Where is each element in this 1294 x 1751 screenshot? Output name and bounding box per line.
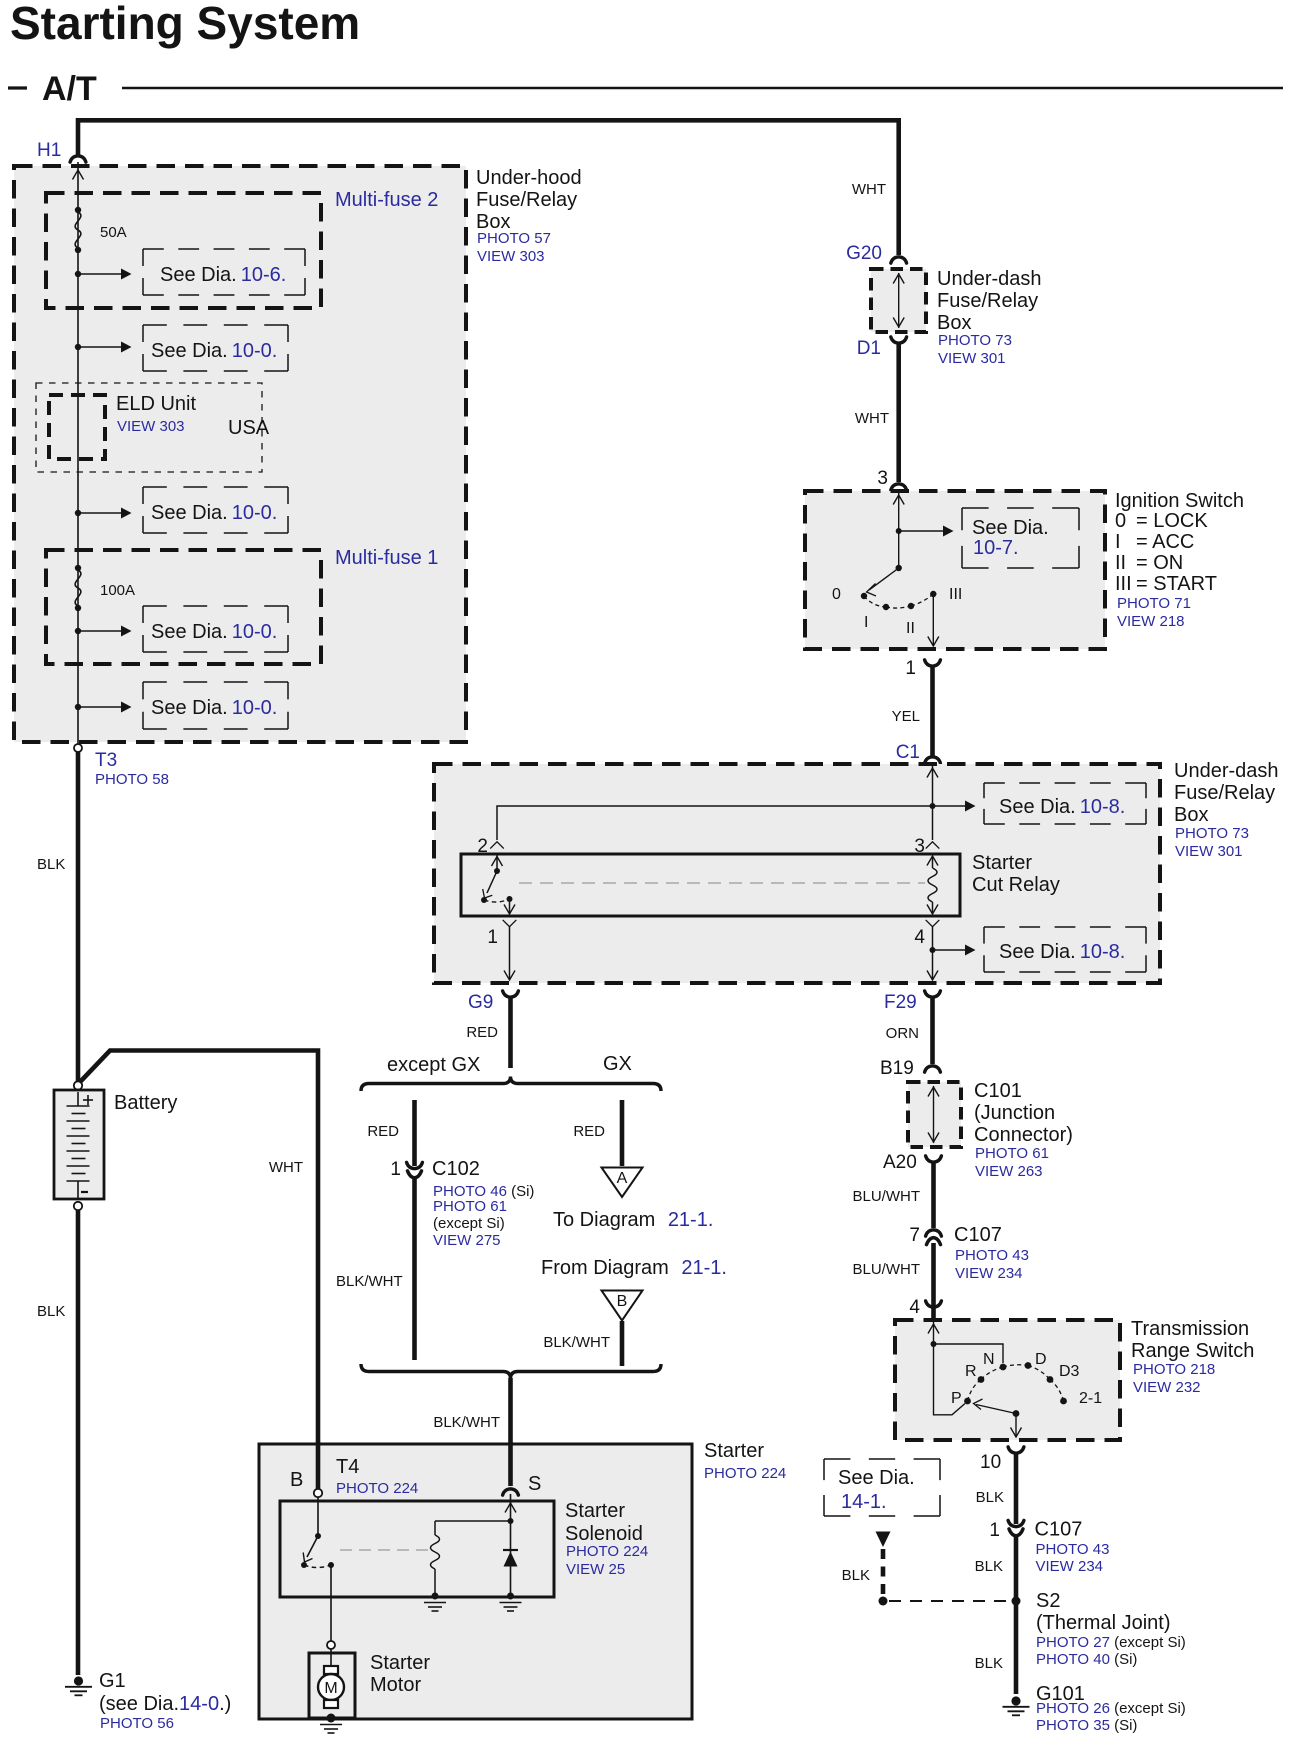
label Under-dash Fuse/Relay Box (top): [937, 268, 1042, 367]
wire: across to pin 2: [497, 806, 933, 840]
svg-text:Multi-fuse 2: Multi-fuse 2: [335, 189, 438, 211]
svg-text:0: 0: [1115, 510, 1126, 532]
diode D1 (solenoid): [503, 1521, 518, 1596]
starter solenoid box: [280, 1501, 554, 1597]
label T4: [336, 1456, 418, 1497]
node: tap to dia 10-0 (d): [75, 704, 81, 710]
svg-text:VIEW 301: VIEW 301: [938, 350, 1006, 367]
wire arrow to See Dia.10-8 (top): [933, 805, 966, 807]
svg-text:See Dia.: See Dia.: [972, 517, 1049, 539]
svg-text:M: M: [324, 1680, 337, 1697]
svg-text:C107: C107: [1035, 1519, 1083, 1541]
wire: S pin into solenoid: [510, 1494, 512, 1521]
svg-text:Starting System: Starting System: [10, 0, 360, 49]
connector C107 pin 7 (in-line): [926, 1230, 942, 1236]
see dia 10-8 box (top): [984, 783, 1146, 824]
svg-text:Solenoid: Solenoid: [565, 1523, 643, 1545]
label Under-dash Fuse/Relay Box (right): [1174, 760, 1279, 860]
svg-text:Under-dash: Under-dash: [1174, 760, 1279, 782]
connector pin 2: [490, 842, 504, 849]
svg-text:VIEW 25: VIEW 25: [566, 1561, 625, 1578]
wire: WHT into box to B stud: [316, 1442, 321, 1489]
svg-text:Box: Box: [1174, 804, 1208, 826]
svg-text:Starter: Starter: [704, 1440, 764, 1462]
svg-text:YEL: YEL: [892, 708, 920, 725]
multi-fuse 2 box: [46, 193, 321, 308]
label Starter Solenoid: [565, 1500, 648, 1578]
svg-text:= ACC: = ACC: [1136, 531, 1194, 553]
svg-text:Fuse/Relay: Fuse/Relay: [476, 189, 577, 211]
label Transmission Range Switch: [1131, 1318, 1254, 1396]
svg-text:USA: USA: [228, 417, 270, 439]
wire arrow to See Dia.10-8 (bottom): [933, 949, 966, 951]
node: tap to See Dia.10-8 (bottom): [930, 947, 936, 953]
connector pin 10: [1008, 1447, 1024, 1453]
relay link dashed: [519, 882, 925, 884]
svg-text:Under-dash: Under-dash: [937, 268, 1042, 290]
wire: TRS to C107 BLK: [1014, 1453, 1019, 1524]
svg-text:See Dia.10-0.: See Dia.10-0.: [151, 621, 277, 643]
svg-text:100A: 100A: [100, 582, 135, 599]
wire: B pin into solenoid: [317, 1497, 319, 1536]
svg-text:C101: C101: [974, 1080, 1022, 1102]
svg-text:P: P: [951, 1390, 962, 1407]
label G1: [99, 1670, 231, 1732]
ground G1: [65, 1676, 92, 1695]
see dia 10-7 box: [962, 508, 1079, 568]
ELD unit outer box: [36, 383, 262, 472]
svg-text:WHT: WHT: [269, 1159, 303, 1176]
svg-text:PHOTO 40 (Si): PHOTO 40 (Si): [1036, 1651, 1137, 1668]
svg-text:PHOTO 71: PHOTO 71: [1117, 595, 1191, 612]
svg-text:= LOCK: = LOCK: [1136, 510, 1208, 532]
connector pin 1 (relay): [503, 920, 517, 927]
see dia 10-8 box (bottom): [984, 927, 1146, 972]
svg-text:Fuse/Relay: Fuse/Relay: [1174, 782, 1275, 804]
label ELD Unit: [116, 393, 270, 439]
branch bracket top (except GX / GX): [361, 1077, 661, 1092]
svg-text:PHOTO 224: PHOTO 224: [336, 1480, 418, 1497]
svg-text:BLK/WHT: BLK/WHT: [336, 1273, 403, 1290]
wire: BLK/WHT into box to S: [508, 1442, 513, 1486]
fuse 100A: [75, 565, 135, 611]
wire: C1 feed inside box: [927, 766, 938, 840]
subtitle dash: [8, 86, 27, 89]
svg-text:B: B: [617, 1293, 628, 1310]
svg-text:From Diagram 21-1.: From Diagram 21-1.: [541, 1257, 727, 1279]
svg-text:RED: RED: [573, 1123, 605, 1140]
svg-text:(Junction: (Junction: [974, 1102, 1055, 1124]
svg-text:(except Si): (except Si): [433, 1215, 505, 1232]
ELD unit sensor box: [49, 395, 105, 459]
svg-text:BLK/WHT: BLK/WHT: [433, 1414, 500, 1431]
svg-text:C107: C107: [954, 1224, 1002, 1246]
svg-text:PHOTO 61: PHOTO 61: [433, 1198, 507, 1215]
wire: ignition to C1 YEL: [930, 666, 935, 756]
svg-text:PHOTO 218: PHOTO 218: [1133, 1361, 1215, 1378]
wire arrow: [78, 706, 121, 708]
label C101 (Junction Connector): [974, 1080, 1073, 1180]
starter cut relay box: [461, 854, 960, 916]
node: tap to dia 10-6: [75, 271, 81, 277]
ignition switch box: [805, 491, 1105, 649]
svg-text:II: II: [906, 620, 915, 637]
branch bracket bottom: [361, 1364, 661, 1379]
ground (coil): [424, 1603, 446, 1612]
svg-text:See Dia.10-0.: See Dia.10-0.: [151, 340, 277, 362]
wire arrow: [78, 512, 121, 514]
terminal T3: [74, 744, 82, 752]
svg-text:Transmission: Transmission: [1131, 1318, 1249, 1340]
wire: from B BLK/WHT: [620, 1321, 625, 1366]
label C102: [432, 1158, 534, 1249]
relay coil: [927, 856, 938, 914]
svg-text:2-1: 2-1: [1079, 1390, 1102, 1407]
svg-text:BLK: BLK: [975, 1655, 1003, 1672]
svg-text:PHOTO 43: PHOTO 43: [1036, 1541, 1110, 1558]
multi-fuse 1 box: [46, 550, 321, 664]
TRS internals: [928, 1322, 1102, 1437]
svg-text:Under-hood: Under-hood: [476, 167, 582, 189]
see dia 14-1 box: [824, 1459, 940, 1516]
wire: F29 ORN: [930, 997, 935, 1064]
svg-text:PHOTO 224: PHOTO 224: [566, 1543, 648, 1560]
connector C107 pin 1 (in-line): [1008, 1520, 1024, 1526]
solenoid contact (movable arm): [301, 1533, 334, 1568]
svg-text:(see Dia.14-0.): (see Dia.14-0.): [99, 1693, 231, 1715]
terminal B stud: [314, 1489, 322, 1497]
svg-text:D3: D3: [1059, 1363, 1080, 1380]
svg-text:PHOTO 27 (except Si): PHOTO 27 (except Si): [1036, 1634, 1186, 1651]
svg-text:III: III: [949, 586, 962, 603]
svg-text:See Dia.: See Dia.: [838, 1467, 915, 1489]
svg-text:Multi-fuse 1: Multi-fuse 1: [335, 547, 438, 569]
under-hood fuse/relay box: [14, 166, 466, 742]
svg-text:B: B: [290, 1469, 303, 1491]
connector A20: [926, 1156, 942, 1162]
wire: battery positive WHT branch to starter B: [80, 1051, 319, 1489]
connector B19: [925, 1066, 941, 1072]
svg-text:VIEW 303: VIEW 303: [117, 418, 185, 435]
svg-text:See Dia.10-6.: See Dia.10-6.: [160, 264, 286, 286]
svg-text:10-7.: 10-7.: [973, 537, 1019, 559]
see dia 10-6 box: [143, 249, 305, 295]
wire: C107 to G101 BLK: [1014, 1537, 1019, 1695]
svg-text:except GX: except GX: [387, 1054, 480, 1076]
connector C1: [925, 757, 941, 763]
svg-text:F29: F29: [884, 992, 917, 1013]
off-page connector B: [602, 1291, 643, 1321]
label C107 (bottom): [1035, 1519, 1110, 1576]
connector H1 (female end): [70, 156, 86, 162]
svg-text:BLU/WHT: BLU/WHT: [853, 1261, 921, 1278]
svg-text:Connector): Connector): [974, 1124, 1073, 1146]
svg-text:VIEW 234: VIEW 234: [955, 1265, 1023, 1282]
connector pin 3: [891, 484, 907, 490]
connector G20: [891, 257, 907, 263]
svg-text:II: II: [1115, 552, 1126, 574]
connector pin 3 (relay): [926, 842, 940, 849]
svg-text:PHOTO 61: PHOTO 61: [975, 1145, 1049, 1162]
svg-text:50A: 50A: [100, 224, 127, 241]
svg-text:A/T: A/T: [42, 70, 97, 108]
node: jumper end: [879, 1597, 888, 1606]
svg-text:PHOTO 73: PHOTO 73: [1175, 825, 1249, 842]
svg-text:RED: RED: [367, 1123, 399, 1140]
header rule: [122, 87, 1283, 89]
label: Under-hood Fuse/Relay Box: [476, 167, 582, 265]
svg-text:4: 4: [914, 927, 925, 948]
connector pin 4: [926, 920, 940, 927]
wire: A20 BLU/WHT: [931, 1162, 936, 1228]
see dia 10-0 box (c): [143, 606, 288, 652]
svg-text:PHOTO 58: PHOTO 58: [95, 771, 169, 788]
see dia 10-0 box (b): [143, 487, 288, 533]
svg-text:7: 7: [909, 1225, 920, 1246]
label Ignition Switch legend: [1115, 490, 1244, 630]
connector G9: [503, 991, 519, 997]
wire: T3 to battery BLK: [76, 752, 81, 1082]
svg-text:See Dia.10-8.: See Dia.10-8.: [999, 796, 1125, 818]
ground G101: [1003, 1696, 1030, 1715]
wire: C107 to TRS BLU/WHT: [931, 1243, 936, 1320]
fuse 50A: [75, 207, 127, 253]
motor terminal: [327, 1641, 335, 1649]
svg-text:BLK: BLK: [976, 1489, 1004, 1506]
label Starter: [704, 1440, 786, 1482]
svg-text:ELD Unit: ELD Unit: [116, 393, 196, 415]
relay contact: [481, 855, 515, 914]
svg-text:PHOTO 73: PHOTO 73: [938, 332, 1012, 349]
wire: dashed jumper to S2: [889, 1600, 1008, 1602]
wire: GX branch RED: [620, 1100, 625, 1166]
svg-text:B19: B19: [880, 1058, 914, 1079]
svg-text:To Diagram 21-1.: To Diagram 21-1.: [553, 1209, 713, 1231]
connector pin 1: [925, 660, 941, 666]
svg-text:PHOTO 26 (except Si): PHOTO 26 (except Si): [1036, 1700, 1186, 1717]
node: tap to dia 10-0 (c): [75, 628, 81, 634]
node S junction: [508, 1518, 514, 1524]
svg-text:PHOTO 35 (Si): PHOTO 35 (Si): [1036, 1717, 1137, 1734]
wire: pin 4 down and tap: [927, 927, 938, 980]
ignition switch internals: [832, 493, 962, 646]
svg-text:3: 3: [877, 468, 888, 489]
svg-text:C1: C1: [896, 742, 920, 763]
wire arrow: [78, 346, 121, 348]
svg-text:I: I: [1115, 531, 1121, 553]
ground (motor): [320, 1725, 342, 1734]
svg-text:S: S: [528, 1473, 541, 1495]
svg-text:Starter: Starter: [972, 852, 1032, 874]
svg-text:BLK: BLK: [842, 1567, 870, 1584]
svg-text:4: 4: [909, 1297, 920, 1318]
svg-text:BLK: BLK: [37, 856, 65, 873]
label T3: [95, 750, 169, 788]
wire: except-GX branch RED/BLK-WHT: [412, 1100, 417, 1166]
svg-text:WHT: WHT: [855, 410, 889, 427]
wire: D1 to ignition WHT: [896, 343, 901, 482]
svg-text:A20: A20: [883, 1152, 917, 1173]
svg-text:Cut Relay: Cut Relay: [972, 874, 1060, 896]
svg-text:G20: G20: [846, 243, 882, 264]
svg-text:0: 0: [832, 586, 841, 603]
label Starter Motor: [370, 1652, 430, 1696]
svg-text:VIEW 232: VIEW 232: [1133, 1379, 1201, 1396]
see dia 10-0 box (a): [143, 325, 288, 371]
see dia 10-0 box (d): [143, 682, 288, 729]
svg-text:GX: GX: [603, 1053, 632, 1075]
off-page connector A: [602, 1168, 643, 1198]
svg-text:N: N: [983, 1351, 995, 1368]
transmission range switch box: [895, 1320, 1120, 1440]
wire: battery negative to G1 BLK: [76, 1210, 81, 1675]
wire: coil top to S node: [435, 1520, 511, 1522]
connector S: [503, 1489, 519, 1495]
svg-text:VIEW 303: VIEW 303: [477, 248, 545, 265]
arrow into box top: [73, 170, 84, 180]
svg-text:G9: G9: [468, 992, 493, 1013]
svg-text:1: 1: [390, 1159, 401, 1180]
svg-text:A: A: [617, 1170, 628, 1187]
svg-text:PHOTO 43: PHOTO 43: [955, 1247, 1029, 1264]
wire: dashed BLK stub: [881, 1549, 886, 1595]
svg-text:(Thermal Joint): (Thermal Joint): [1036, 1612, 1170, 1634]
svg-text:R: R: [965, 1363, 977, 1380]
svg-text:Starter: Starter: [565, 1500, 625, 1522]
wire: battery feed from H1 up and across to G20: [78, 120, 899, 255]
off-page arrow (to dia 14-1): [876, 1532, 891, 1548]
svg-text:BLK: BLK: [975, 1558, 1003, 1575]
motor ground node: [327, 1714, 336, 1723]
wire: main feed inside under-hood box: [77, 162, 79, 744]
ground (diode): [500, 1603, 522, 1612]
svg-text:D1: D1: [857, 338, 881, 359]
svg-text:14-1.: 14-1.: [841, 1491, 887, 1513]
svg-text:Fuse/Relay: Fuse/Relay: [937, 290, 1038, 312]
under-dash fuse/relay box (main): [434, 764, 1160, 983]
svg-text:1: 1: [905, 658, 916, 679]
svg-text:Motor: Motor: [370, 1674, 421, 1696]
svg-text:BLK/WHT: BLK/WHT: [543, 1334, 610, 1351]
svg-text:VIEW 234: VIEW 234: [1036, 1558, 1104, 1575]
label C107: [954, 1224, 1029, 1282]
svg-text:H1: H1: [37, 140, 61, 161]
svg-text:PHOTO 57: PHOTO 57: [477, 230, 551, 247]
wire: merged BLK/WHT to starter S: [508, 1378, 513, 1486]
wire: G9 RED: [508, 997, 513, 1068]
wire arrow: [78, 630, 121, 632]
svg-text:BLU/WHT: BLU/WHT: [853, 1188, 921, 1205]
label G101: [1036, 1683, 1186, 1734]
svg-text:Ignition Switch: Ignition Switch: [1115, 490, 1244, 512]
svg-text:= ON: = ON: [1136, 552, 1183, 574]
wire: pin 1 down to G9: [504, 927, 515, 980]
svg-text:C102: C102: [432, 1158, 480, 1180]
svg-text:D: D: [1035, 1351, 1047, 1368]
node: tap to dia 10-0 (a): [75, 344, 81, 350]
svg-text:VIEW 301: VIEW 301: [1175, 843, 1243, 860]
junction connector C101: [908, 1082, 961, 1147]
starter motor M1: [309, 1649, 355, 1718]
svg-text:Box: Box: [937, 312, 971, 334]
under-dash junction block G20/D1: [871, 269, 926, 332]
svg-text:PHOTO 56: PHOTO 56: [100, 1715, 174, 1732]
svg-text:G1: G1: [99, 1670, 126, 1692]
svg-text:VIEW 218: VIEW 218: [1117, 613, 1185, 630]
dashed link contact to coil: [340, 1549, 428, 1551]
wire: solenoid contact to motor: [330, 1565, 332, 1641]
node: branch to relay pin 2: [930, 803, 936, 809]
svg-text:PHOTO 224: PHOTO 224: [704, 1465, 786, 1482]
svg-text:= START: = START: [1136, 573, 1217, 595]
solenoid coil: [431, 1521, 440, 1596]
svg-text:See Dia.10-8.: See Dia.10-8.: [999, 941, 1125, 963]
battery B1: [54, 1081, 104, 1210]
connector C102 (in-line): [407, 1162, 423, 1168]
connector pin 4 (TRS): [926, 1301, 942, 1307]
diode ground node: [507, 1593, 514, 1600]
label Starter Cut Relay: [972, 852, 1060, 896]
connector F29: [925, 991, 941, 997]
svg-text:VIEW 275: VIEW 275: [433, 1232, 501, 1249]
node S2 thermal joint: [1012, 1597, 1021, 1606]
svg-text:WHT: WHT: [852, 181, 886, 198]
svg-text:I: I: [864, 614, 868, 631]
svg-text:ORN: ORN: [886, 1025, 919, 1042]
starter assembly box: [259, 1444, 692, 1719]
label S2 (Thermal Joint): [1036, 1590, 1186, 1668]
svg-text:Battery: Battery: [114, 1092, 177, 1114]
svg-text:VIEW 263: VIEW 263: [975, 1163, 1043, 1180]
svg-text:Range Switch: Range Switch: [1131, 1340, 1254, 1362]
node: tap to dia 10-0 (b): [75, 510, 81, 516]
svg-text:T4: T4: [336, 1456, 359, 1478]
svg-text:1: 1: [487, 927, 498, 948]
coil ground node: [432, 1593, 439, 1600]
svg-text:III: III: [1115, 573, 1132, 595]
svg-text:10: 10: [980, 1452, 1001, 1473]
svg-text:See Dia.10-0.: See Dia.10-0.: [151, 502, 277, 524]
svg-text:1: 1: [989, 1520, 1000, 1541]
connector D1: [891, 337, 907, 343]
svg-text:See Dia.10-0.: See Dia.10-0.: [151, 697, 277, 719]
wire arrow to See Dia.10-6: [78, 273, 121, 275]
svg-text:T3: T3: [95, 750, 117, 771]
svg-text:S2: S2: [1036, 1590, 1060, 1612]
svg-text:RED: RED: [466, 1024, 498, 1041]
svg-text:Starter: Starter: [370, 1652, 430, 1674]
svg-text:BLK: BLK: [37, 1303, 65, 1320]
